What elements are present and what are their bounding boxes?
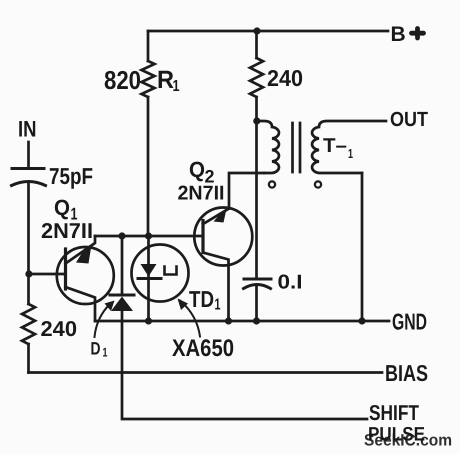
tunnel diode TD1 cathode bar bbox=[138, 277, 161, 280]
junction dot GND / 0.1 cap bbox=[253, 317, 260, 324]
junction dot top rail / 240 bbox=[253, 27, 260, 34]
leader arrow for TD1 / XA650 bbox=[180, 301, 200, 337]
wire left 240 top lead bbox=[27, 274, 30, 304]
wire R1 top lead bbox=[147, 31, 150, 61]
transistor Q2 emitter lead up to transformer bbox=[203, 209, 229, 225]
transformer T-1 secondary winding bbox=[312, 121, 386, 173]
transformer phase dot left bbox=[269, 181, 275, 187]
resistor R1 zigzag bbox=[142, 61, 155, 97]
svg-text:D: D bbox=[91, 339, 101, 359]
diode D1 triangle bbox=[111, 297, 133, 312]
svg-text:1: 1 bbox=[215, 297, 221, 314]
svg-text:0.I: 0.I bbox=[278, 272, 303, 294]
tunnel diode TD1 circle bbox=[132, 245, 189, 302]
svg-text:SeekIC.com: SeekIC.com bbox=[364, 432, 452, 450]
transformer T-1 primary winding bbox=[257, 121, 279, 173]
diode D1 cathode bar bbox=[110, 294, 134, 297]
wire right 240 bottom lead to transformer-top node bbox=[255, 97, 258, 121]
svg-text:T–: T– bbox=[323, 135, 347, 157]
transistor Q1 emitter arrowhead bbox=[76, 245, 92, 264]
wire R1 bottom lead down to node line bbox=[147, 97, 150, 236]
arrowhead of TD1 leader bbox=[178, 299, 189, 311]
svg-text:1: 1 bbox=[173, 78, 180, 95]
svg-text:GND: GND bbox=[392, 309, 427, 335]
svg-text:OUT: OUT bbox=[390, 108, 428, 131]
BIAS line bbox=[29, 371, 383, 374]
svg-text:240: 240 bbox=[267, 65, 303, 91]
svg-text:BIAS: BIAS bbox=[385, 360, 428, 386]
wire 75pF to Q1 base node bbox=[27, 183, 30, 274]
wire right 240 top lead bbox=[255, 31, 258, 58]
junction dot GND / TD1 bbox=[145, 317, 152, 324]
transistor Q1 emitter lead to node line bbox=[66, 236, 96, 264]
wire IN lead bbox=[27, 142, 30, 169]
svg-text:R: R bbox=[157, 66, 174, 94]
capacitor 0.1 top plate bbox=[244, 278, 271, 281]
wire capacitor 0.1 to GND bbox=[255, 286, 258, 322]
svg-text:Q: Q bbox=[54, 195, 70, 220]
capacitor 75pF top plate bbox=[12, 167, 44, 170]
capacitor 75pF curved plate bbox=[12, 182, 46, 186]
wire left 240 bottom lead to BIAS bbox=[27, 344, 30, 373]
wire D1 anode down to SHIFT PULSE line bbox=[122, 310, 367, 419]
transistor Q2 emitter arrowhead bbox=[214, 211, 227, 222]
transistor Q2 base bar bbox=[201, 221, 204, 253]
wire Q1 base lead bbox=[29, 273, 66, 276]
wire from transformer-top node down to capacitor 0.1 bbox=[255, 121, 258, 279]
svg-text:820: 820 bbox=[104, 65, 141, 95]
leader arrow for D1 bbox=[95, 304, 111, 338]
svg-text:TD: TD bbox=[189, 286, 214, 312]
junction dot GND / Q2 collector bbox=[225, 317, 232, 324]
wire TD1 vertical through circle bbox=[147, 236, 150, 321]
transformer core lines bbox=[293, 123, 301, 172]
svg-text:IN: IN bbox=[18, 117, 37, 142]
transformer phase dot right bbox=[315, 181, 321, 187]
svg-text:2N7II: 2N7II bbox=[41, 219, 93, 243]
transistor Q1 circle bbox=[57, 247, 114, 304]
wire Q2 emitter to primary bottom bbox=[229, 173, 264, 209]
transistor Q2 circle bbox=[194, 208, 252, 266]
junction dot node line / D1 bbox=[118, 232, 125, 239]
junction dot Q1 base node bbox=[25, 270, 32, 277]
wire D1 top lead bbox=[121, 236, 124, 295]
transistor Q2 collector lead to GND bbox=[203, 253, 229, 322]
svg-text:1: 1 bbox=[103, 346, 108, 360]
svg-text:XA650: XA650 bbox=[172, 335, 234, 362]
wire top B+ rail bbox=[148, 30, 388, 33]
resistor 240 (left) zigzag bbox=[22, 304, 35, 344]
GND line bbox=[95, 320, 389, 323]
node line (Q1 emitter, D1, R1, TD1, Q2 base) bbox=[95, 235, 203, 238]
svg-text:Q: Q bbox=[189, 157, 205, 182]
transistor Q1 collector lead to GND bbox=[66, 287, 96, 321]
capacitor 0.1 curved plate bbox=[244, 285, 271, 289]
resistor 240 (right) zigzag bbox=[250, 58, 263, 97]
tunnel diode TD1 triangle bbox=[141, 264, 157, 277]
tunnel diode TD1 bracket mark bbox=[165, 267, 177, 275]
transistor Q1 base bar bbox=[64, 249, 67, 289]
junction dot node line / R1 / TD1 bbox=[145, 232, 152, 239]
svg-text:2N7II: 2N7II bbox=[178, 183, 225, 205]
svg-text:240: 240 bbox=[41, 317, 78, 341]
junction dot GND / transformer return bbox=[358, 317, 365, 324]
svg-text:B: B bbox=[391, 23, 406, 46]
svg-text:SHIFT: SHIFT bbox=[369, 401, 419, 425]
arrowhead of D1 leader bbox=[105, 301, 115, 312]
wire secondary return to GND bbox=[361, 173, 364, 321]
junction dot 240 / transformer top bbox=[253, 117, 260, 124]
svg-text:75pF: 75pF bbox=[49, 163, 93, 189]
svg-text:1: 1 bbox=[348, 146, 353, 161]
